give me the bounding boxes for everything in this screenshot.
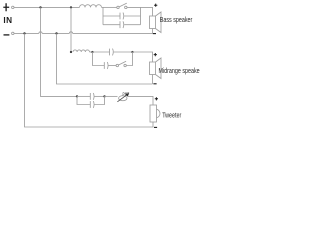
node junction J2 <box>70 6 72 8</box>
wire bass block right bus <box>140 7 142 24</box>
wire midrange speaker return <box>152 75 154 85</box>
wire feed to midrange section <box>70 7 72 52</box>
svg-text:PCT: PCT <box>123 91 130 97</box>
capacitor C5 <box>90 93 94 100</box>
svg-text:IN: IN <box>3 16 12 25</box>
switch S1 <box>117 3 127 9</box>
wire IN- to midrange return <box>57 33 153 84</box>
capacitor C6 <box>90 101 94 108</box>
label midrange speaker plus <box>154 53 157 56</box>
wire cap C1 row right <box>124 15 140 17</box>
inductor L2 <box>73 50 89 52</box>
node junction J4 <box>55 32 57 34</box>
label bass speaker plus <box>154 4 157 7</box>
wire bass speaker return <box>152 29 154 34</box>
wire IN+ to inductor L1 <box>14 6 80 8</box>
power symbol IN+ <box>3 3 9 11</box>
wire midrange to speaker <box>133 52 153 62</box>
switch S2 <box>116 61 126 67</box>
wire L1 to bass filter block <box>102 6 117 8</box>
wire cap C2 row left <box>103 24 120 26</box>
node junction J9 <box>103 95 105 97</box>
bass speaker LS1 <box>150 12 162 33</box>
svg-text:Midrange speaker: Midrange speaker <box>158 67 200 75</box>
label bass speaker minus <box>153 33 156 35</box>
wire C6 to right bus <box>95 96 105 104</box>
inductor L1 <box>80 5 102 8</box>
node junction J7 <box>131 51 133 53</box>
power symbol IN- <box>4 34 10 36</box>
node IN- terminal <box>12 32 14 34</box>
svg-text:Tweeter: Tweeter <box>162 112 181 120</box>
wire midrange cap C3 right <box>114 51 133 53</box>
wire midrange cap C3 left <box>93 51 110 53</box>
wire hop over x71 <box>69 32 72 34</box>
midrange speaker LS2 <box>150 58 162 79</box>
wire tweeter lower cap branch <box>77 96 90 104</box>
wire midrange lower branch left <box>93 52 105 66</box>
capacitor C1 <box>120 13 124 20</box>
capacitor C4 <box>104 62 108 69</box>
wire L2 to midrange block <box>90 51 93 53</box>
node junction J5 <box>70 51 72 53</box>
node junction J6 <box>91 51 93 53</box>
node junction J3 <box>23 32 25 34</box>
wire PCT to tweeter <box>128 96 153 105</box>
wire feed to tweeter section <box>41 7 78 96</box>
node junction J1 <box>39 6 41 8</box>
wire tweeter return <box>152 122 154 127</box>
capacitor C3 <box>110 49 114 56</box>
wire tweeter cap C5 row <box>77 95 90 97</box>
label midrange speaker minus <box>153 83 156 85</box>
label tweeter minus <box>154 126 157 128</box>
label tweeter plus <box>155 97 158 100</box>
svg-text:Bass speaker: Bass speaker <box>160 17 193 25</box>
wire IN- to tweeter return <box>25 33 154 127</box>
wire C5 to junction <box>95 95 105 97</box>
PTC resistor PCT <box>117 93 129 102</box>
wire cap C1 row left <box>103 15 120 17</box>
node junction J8 <box>76 95 78 97</box>
wire S2 to right bus <box>126 52 132 66</box>
wire IN- rail <box>14 32 153 34</box>
wire hop over x40.5 <box>39 32 42 34</box>
wire bass block left bus <box>102 7 104 24</box>
wire cap C2 row right <box>124 24 140 26</box>
tweeter LS3 <box>150 105 160 122</box>
wire C4 to switch S2 <box>109 65 117 67</box>
capacitor C2 <box>120 21 124 28</box>
node IN+ terminal <box>12 6 14 8</box>
wire J9 to PCT <box>105 95 118 97</box>
wire S1 to bass speaker <box>127 7 153 16</box>
